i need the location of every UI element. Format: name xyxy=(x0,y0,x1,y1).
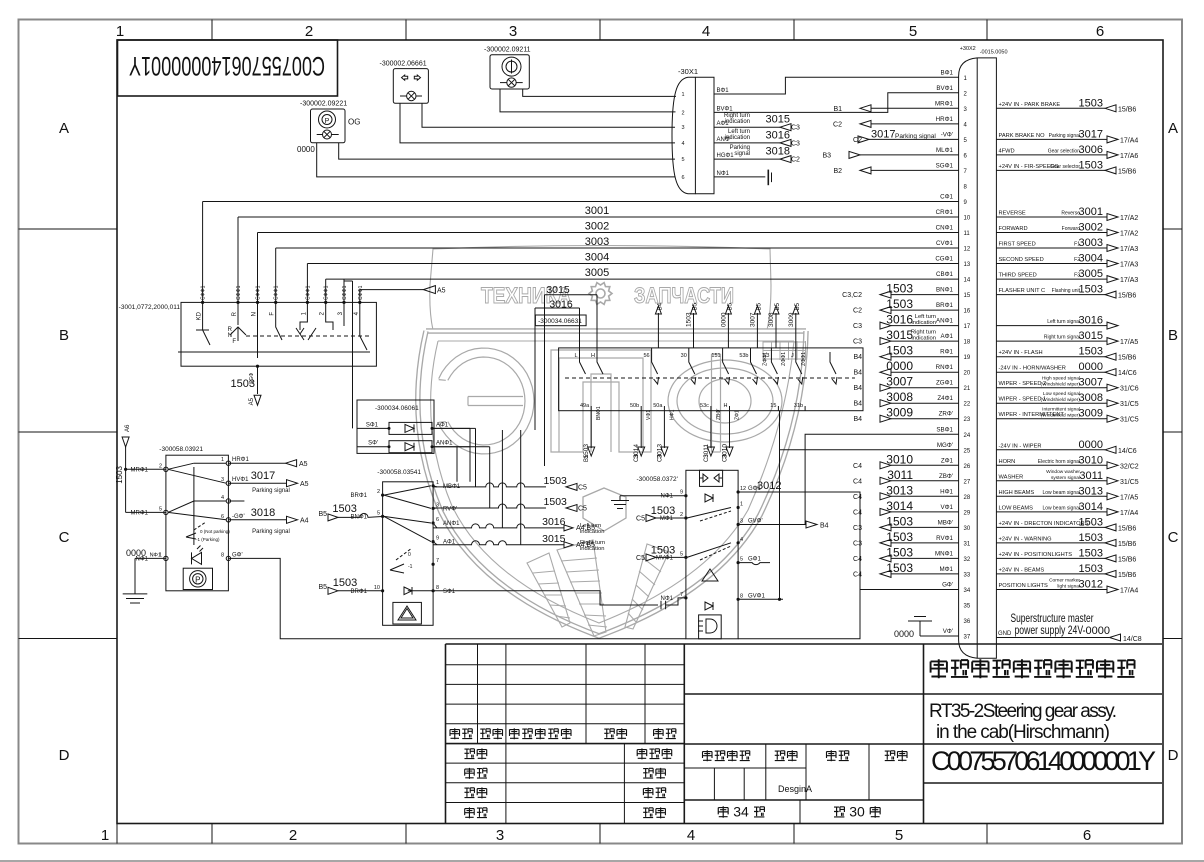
svg-text:L: L xyxy=(574,353,577,359)
svg-text:signal: signal xyxy=(734,151,750,157)
svg-text:1503: 1503 xyxy=(886,514,913,528)
svg-text:C5: C5 xyxy=(636,555,645,562)
svg-text:BNΦ1: BNΦ1 xyxy=(936,287,954,294)
svg-text:BVΦ1: BVΦ1 xyxy=(936,85,953,92)
svg-text:CΦΦ1: CΦΦ1 xyxy=(342,285,348,300)
svg-text:3017: 3017 xyxy=(871,128,895,140)
svg-text:SGΦ1: SGΦ1 xyxy=(936,162,954,169)
svg-text:4: 4 xyxy=(687,827,695,844)
svg-text:1503: 1503 xyxy=(231,378,255,390)
svg-text:17/A3: 17/A3 xyxy=(1120,246,1138,253)
svg-text:ZBΦ': ZBΦ' xyxy=(939,473,953,480)
svg-text:5: 5 xyxy=(377,510,380,516)
svg-text:Parking signal: Parking signal xyxy=(895,133,936,140)
svg-text:3007: 3007 xyxy=(886,375,913,389)
svg-text:B5: B5 xyxy=(318,584,327,591)
svg-text:C3,C2: C3,C2 xyxy=(842,292,862,299)
svg-text:3013: 3013 xyxy=(886,483,913,497)
svg-text:CΦΦ1: CΦΦ1 xyxy=(358,285,364,300)
svg-text:3001: 3001 xyxy=(1079,206,1103,218)
svg-text:34: 34 xyxy=(964,588,971,594)
svg-text:2: 2 xyxy=(305,23,313,40)
svg-text:13: 13 xyxy=(964,262,971,268)
svg-text:31b: 31b xyxy=(794,403,803,409)
svg-text:ZΦΦ1: ZΦΦ1 xyxy=(762,352,768,366)
svg-text:15/B6: 15/B6 xyxy=(1118,572,1136,579)
svg-text:HVΦ1: HVΦ1 xyxy=(232,477,249,483)
svg-text:0: 0 xyxy=(408,552,411,558)
svg-text:RVΦ': RVΦ' xyxy=(443,506,457,512)
svg-text:6: 6 xyxy=(681,175,684,181)
svg-text:HGΦ1: HGΦ1 xyxy=(717,153,735,159)
svg-text:1: 1 xyxy=(116,23,124,40)
svg-text:KD: KD xyxy=(197,311,203,320)
svg-text:A5: A5 xyxy=(299,461,308,468)
svg-text:3005: 3005 xyxy=(1079,268,1103,280)
svg-text:F: F xyxy=(270,312,276,316)
svg-text:22: 22 xyxy=(964,402,971,408)
svg-text:B5: B5 xyxy=(756,302,762,310)
svg-text:MRΦ1: MRΦ1 xyxy=(131,510,149,516)
svg-text:BRΦ1: BRΦ1 xyxy=(936,302,954,309)
svg-text:34: 34 xyxy=(733,804,749,820)
svg-text:3002: 3002 xyxy=(585,221,609,233)
svg-text:2: 2 xyxy=(680,512,683,518)
svg-text:OG: OG xyxy=(348,118,360,127)
svg-text:in the cab(Hirschmann): in the cab(Hirschmann) xyxy=(936,722,1110,743)
svg-text:B4: B4 xyxy=(853,416,862,423)
svg-text:12: 12 xyxy=(740,486,746,492)
svg-text:33: 33 xyxy=(964,572,971,578)
svg-text:Gear selector: Gear selector xyxy=(1050,164,1080,170)
svg-text:CΦΦ1: CΦΦ1 xyxy=(256,285,262,300)
svg-text:A5: A5 xyxy=(300,481,309,488)
svg-text:8: 8 xyxy=(436,585,439,591)
svg-text:14/C6: 14/C6 xyxy=(1118,370,1137,377)
svg-text:FLASHER UNIT C: FLASHER UNIT C xyxy=(999,288,1046,294)
svg-text:AΦ1: AΦ1 xyxy=(436,422,449,428)
svg-text:C3: C3 xyxy=(853,323,862,330)
svg-text:BΦ1: BΦ1 xyxy=(940,69,953,76)
svg-text:3004: 3004 xyxy=(585,252,609,264)
svg-text:indication: indication xyxy=(912,320,937,326)
svg-text:151: 151 xyxy=(711,353,720,359)
svg-text:3011: 3011 xyxy=(703,444,710,458)
svg-text:-300002.09221: -300002.09221 xyxy=(300,101,347,108)
svg-text:D: D xyxy=(1168,747,1179,764)
svg-text:3018: 3018 xyxy=(251,507,275,519)
svg-text:1503: 1503 xyxy=(1079,532,1103,544)
svg-text:35: 35 xyxy=(964,604,971,610)
svg-text:ZΦ1: ZΦ1 xyxy=(735,410,741,420)
svg-text:HIGH BEAMS: HIGH BEAMS xyxy=(999,490,1035,496)
svg-text:16: 16 xyxy=(964,309,971,315)
svg-text:0000: 0000 xyxy=(297,145,315,154)
svg-text:14: 14 xyxy=(964,278,971,284)
svg-text:WIPER - SPEED 1: WIPER - SPEED 1 xyxy=(999,397,1047,403)
svg-text:BNΦ1: BNΦ1 xyxy=(596,406,602,420)
svg-text:C4: C4 xyxy=(853,494,862,501)
svg-text:MBΦ1: MBΦ1 xyxy=(443,484,461,490)
svg-text:-1 (Parking): -1 (Parking) xyxy=(196,537,220,542)
svg-text:B5: B5 xyxy=(775,302,781,310)
svg-text:A6: A6 xyxy=(125,424,131,432)
svg-text:32/C2: 32/C2 xyxy=(1120,463,1139,470)
svg-text:4: 4 xyxy=(221,495,224,501)
svg-text:3017: 3017 xyxy=(1079,128,1103,140)
svg-text:17/A6: 17/A6 xyxy=(1120,153,1138,160)
svg-text:Flashing unit: Flashing unit xyxy=(1052,288,1081,294)
svg-text:50a: 50a xyxy=(653,403,663,409)
svg-text:Corner marker: Corner marker xyxy=(1049,578,1080,584)
svg-text:CΦ1: CΦ1 xyxy=(940,194,953,201)
svg-text:32: 32 xyxy=(964,557,971,563)
svg-text:31/C5: 31/C5 xyxy=(1120,479,1139,486)
svg-text:14/C6: 14/C6 xyxy=(1118,448,1137,455)
svg-text:system signal: system signal xyxy=(1051,475,1080,481)
svg-text:Right turn signal: Right turn signal xyxy=(1044,335,1080,341)
svg-text:Low speed signal: Low speed signal xyxy=(1043,391,1080,397)
svg-text:WIPER - SPEED 2: WIPER - SPEED 2 xyxy=(999,381,1047,387)
svg-text:BRΦ1: BRΦ1 xyxy=(351,589,368,595)
svg-text:2: 2 xyxy=(289,827,297,844)
svg-text:1503: 1503 xyxy=(332,503,356,515)
svg-text:-300002.06661: -300002.06661 xyxy=(380,61,427,68)
svg-text:30: 30 xyxy=(964,526,971,532)
svg-text:PARK BRAKE NO: PARK BRAKE NO xyxy=(999,133,1046,139)
svg-text:1503: 1503 xyxy=(686,312,693,327)
svg-text:17/A5: 17/A5 xyxy=(1120,339,1138,346)
svg-text:3015: 3015 xyxy=(766,114,790,126)
svg-text:17/A4: 17/A4 xyxy=(1120,588,1138,595)
svg-text:1503: 1503 xyxy=(651,544,675,556)
svg-text:6: 6 xyxy=(1096,23,1104,40)
svg-text:HRΦ1: HRΦ1 xyxy=(232,457,249,463)
svg-text:ZRΦ': ZRΦ' xyxy=(939,411,953,418)
svg-text:CΦΦ1: CΦΦ1 xyxy=(324,285,330,300)
svg-text:1503: 1503 xyxy=(886,545,913,559)
svg-text:H: H xyxy=(724,403,728,409)
svg-text:31: 31 xyxy=(964,541,971,547)
svg-text:1503: 1503 xyxy=(886,530,913,544)
svg-text:-1: -1 xyxy=(408,564,413,570)
svg-text:4: 4 xyxy=(702,23,710,40)
svg-text:VΦ': VΦ' xyxy=(943,628,953,635)
svg-text:AΦ1: AΦ1 xyxy=(443,540,456,546)
svg-text:Low beam signal: Low beam signal xyxy=(1042,490,1080,496)
svg-text:ANΦ1: ANΦ1 xyxy=(436,441,453,447)
svg-text:VΦ1: VΦ1 xyxy=(646,410,652,420)
svg-text:24: 24 xyxy=(964,433,971,439)
svg-text:3009: 3009 xyxy=(1079,408,1103,420)
svg-text:C4: C4 xyxy=(853,478,862,485)
svg-text:1: 1 xyxy=(740,502,743,508)
svg-text:17/A5: 17/A5 xyxy=(1120,494,1138,501)
svg-text:B2: B2 xyxy=(833,168,842,175)
svg-text:1503: 1503 xyxy=(886,561,913,575)
svg-text:F: F xyxy=(232,339,236,345)
svg-text:MRΦ1: MRΦ1 xyxy=(131,467,149,473)
svg-text:N: N xyxy=(252,312,258,316)
svg-text:17/A2: 17/A2 xyxy=(1120,215,1138,222)
svg-text:3012: 3012 xyxy=(757,480,781,492)
svg-text:12: 12 xyxy=(964,247,971,253)
svg-text:C5: C5 xyxy=(636,516,645,523)
svg-text:J: J xyxy=(791,353,794,359)
svg-text:indication: indication xyxy=(580,546,605,552)
svg-text:B4: B4 xyxy=(853,370,862,377)
svg-text:3015: 3015 xyxy=(542,533,566,545)
svg-text:1: 1 xyxy=(101,827,109,844)
svg-text:0000: 0000 xyxy=(1086,625,1110,637)
svg-text:ANΦ1: ANΦ1 xyxy=(936,318,954,325)
svg-text:CBΦ1: CBΦ1 xyxy=(936,271,954,278)
svg-text:-300034.06061: -300034.06061 xyxy=(375,405,419,412)
svg-text:WASHER: WASHER xyxy=(999,474,1024,480)
svg-text:A5: A5 xyxy=(437,288,446,295)
svg-text:8: 8 xyxy=(740,593,743,599)
svg-text:3005: 3005 xyxy=(585,267,609,279)
svg-text:-0015.0050: -0015.0050 xyxy=(980,50,1008,56)
svg-text:POSITION LIGHTS: POSITION LIGHTS xyxy=(999,583,1049,589)
svg-text:-30X1: -30X1 xyxy=(678,67,698,76)
svg-text:3003: 3003 xyxy=(1079,237,1103,249)
svg-text:3014: 3014 xyxy=(886,499,913,513)
svg-text:3: 3 xyxy=(496,827,504,844)
svg-text:-300058.03921: -300058.03921 xyxy=(159,446,203,453)
svg-text:C3: C3 xyxy=(853,525,862,532)
svg-text:Parking signal: Parking signal xyxy=(252,488,290,494)
svg-text:15/B6: 15/B6 xyxy=(1118,541,1136,548)
svg-text:5: 5 xyxy=(895,827,903,844)
svg-text:11: 11 xyxy=(964,231,971,237)
svg-text:SΦ1: SΦ1 xyxy=(443,589,456,595)
svg-text:31/C5: 31/C5 xyxy=(1120,401,1139,408)
svg-text:3016: 3016 xyxy=(549,299,573,311)
svg-text:25: 25 xyxy=(964,448,971,454)
svg-text:15/B6: 15/B6 xyxy=(1118,168,1136,175)
svg-text:B3: B3 xyxy=(822,152,831,159)
svg-text:53b: 53b xyxy=(739,353,748,359)
svg-text:HΦ1: HΦ1 xyxy=(669,409,675,420)
svg-text:9: 9 xyxy=(680,490,683,496)
svg-text:1503: 1503 xyxy=(1079,563,1103,575)
svg-text:3002: 3002 xyxy=(1079,222,1103,234)
svg-text:3015: 3015 xyxy=(886,328,913,342)
svg-text:3016: 3016 xyxy=(886,313,913,327)
svg-text:ANΦ1: ANΦ1 xyxy=(443,521,460,527)
svg-text:SBΦ1: SBΦ1 xyxy=(936,426,953,433)
svg-text:REVERSE: REVERSE xyxy=(999,211,1026,217)
svg-text:B4: B4 xyxy=(657,302,663,310)
svg-text:17/A2: 17/A2 xyxy=(1120,231,1138,238)
svg-text:Electric horn signal: Electric horn signal xyxy=(1038,459,1080,465)
svg-text:23: 23 xyxy=(964,417,971,423)
svg-text:CVΦ1: CVΦ1 xyxy=(936,240,954,247)
svg-text:C4: C4 xyxy=(853,509,862,516)
svg-text:BVΦ1: BVΦ1 xyxy=(717,106,734,112)
svg-text:power supply 24V-: power supply 24V- xyxy=(1015,623,1086,637)
svg-text:NΦ1: NΦ1 xyxy=(661,494,674,500)
svg-text:C4: C4 xyxy=(853,463,862,470)
svg-text:Left turn signal: Left turn signal xyxy=(1047,319,1080,325)
svg-text:31/C6: 31/C6 xyxy=(1120,386,1139,393)
svg-text:15/B6: 15/B6 xyxy=(1118,106,1136,113)
svg-text:20: 20 xyxy=(964,371,971,377)
svg-text:-GΦ': -GΦ' xyxy=(232,514,245,520)
svg-text:High speed signal: High speed signal xyxy=(1042,376,1080,382)
svg-text:C2: C2 xyxy=(833,121,842,128)
svg-text:15/B6: 15/B6 xyxy=(1118,293,1136,300)
svg-text:A: A xyxy=(1168,120,1178,137)
svg-text:Z4Φ1: Z4Φ1 xyxy=(937,395,953,402)
svg-text:1503: 1503 xyxy=(1079,346,1103,358)
svg-text:-VΦ': -VΦ' xyxy=(941,131,953,138)
svg-text:3: 3 xyxy=(681,125,684,131)
svg-text:B4: B4 xyxy=(820,523,829,530)
svg-text:-300058.03541: -300058.03541 xyxy=(377,469,421,476)
svg-text:indication: indication xyxy=(912,336,937,342)
svg-text:C5: C5 xyxy=(578,506,587,513)
svg-text:indication: indication xyxy=(725,135,750,141)
svg-text:CRΦ1: CRΦ1 xyxy=(936,209,954,216)
svg-text:HΦ1: HΦ1 xyxy=(940,488,953,495)
svg-text:1503: 1503 xyxy=(115,465,124,483)
svg-text:A5: A5 xyxy=(249,397,255,405)
svg-text:P: P xyxy=(195,575,200,584)
svg-text:ZGΦ1: ZGΦ1 xyxy=(936,380,954,387)
svg-text:-3001,0772,2000,011: -3001,0772,2000,011 xyxy=(119,304,181,311)
svg-text:indication: indication xyxy=(580,529,605,535)
svg-text:B5: B5 xyxy=(727,302,733,310)
svg-text:C3: C3 xyxy=(791,125,800,132)
svg-text:2: 2 xyxy=(377,489,380,495)
svg-text:5: 5 xyxy=(159,506,162,512)
svg-text:56: 56 xyxy=(643,353,649,359)
svg-text:C: C xyxy=(1168,529,1179,546)
svg-text:C00755706140000001Y: C00755706140000001Y xyxy=(129,51,325,81)
svg-text:7: 7 xyxy=(436,558,439,564)
svg-text:1503: 1503 xyxy=(544,496,568,508)
svg-text:GΦ': GΦ' xyxy=(942,582,953,589)
svg-text:8: 8 xyxy=(221,552,224,558)
svg-text:3004: 3004 xyxy=(1079,253,1103,265)
svg-text:36: 36 xyxy=(964,619,971,625)
svg-text:ZΦΦ1: ZΦΦ1 xyxy=(801,352,807,366)
svg-text:GND: GND xyxy=(998,631,1012,637)
svg-text:3014: 3014 xyxy=(1079,501,1103,513)
svg-text:4FWD: 4FWD xyxy=(999,148,1015,154)
svg-text:C2: C2 xyxy=(853,308,862,315)
svg-text:+30X2: +30X2 xyxy=(960,46,976,52)
svg-text:light signal: light signal xyxy=(1057,584,1080,590)
svg-text:15/B6: 15/B6 xyxy=(1118,525,1136,532)
svg-text:3010: 3010 xyxy=(722,444,729,459)
svg-text:LOW BEAMS: LOW BEAMS xyxy=(999,505,1034,511)
svg-text:1503: 1503 xyxy=(1079,547,1103,559)
svg-text:15/B6: 15/B6 xyxy=(1118,355,1136,362)
svg-text:FIRST SPEED: FIRST SPEED xyxy=(999,242,1036,248)
svg-text:CΦΦ1: CΦΦ1 xyxy=(236,285,242,300)
svg-text:FORWARD: FORWARD xyxy=(999,226,1028,232)
svg-text:0000: 0000 xyxy=(126,548,146,558)
svg-text:3009: 3009 xyxy=(886,406,913,420)
svg-text:21: 21 xyxy=(964,386,971,392)
svg-text:0000: 0000 xyxy=(1079,439,1103,451)
svg-text:Parking signal: Parking signal xyxy=(1049,133,1080,139)
svg-text:B4: B4 xyxy=(853,385,862,392)
svg-text:17/A3: 17/A3 xyxy=(1120,277,1138,284)
svg-text:3018: 3018 xyxy=(766,146,790,158)
svg-text:ZΦΦ1: ZΦΦ1 xyxy=(781,352,787,366)
svg-text:1503: 1503 xyxy=(1079,159,1103,171)
svg-text:RT35-2Steering gear assy.: RT35-2Steering gear assy. xyxy=(929,701,1117,722)
svg-text:C: C xyxy=(59,529,70,546)
svg-text:3016: 3016 xyxy=(1079,315,1103,327)
svg-text:1503: 1503 xyxy=(583,444,590,459)
svg-text:BRΦ1: BRΦ1 xyxy=(351,493,368,499)
svg-text:(Windshield wiper): (Windshield wiper) xyxy=(1041,413,1081,419)
svg-text:7: 7 xyxy=(680,592,683,598)
svg-text:3009: 3009 xyxy=(788,312,795,327)
svg-text:MRΦ1: MRΦ1 xyxy=(935,100,954,107)
svg-text:3001: 3001 xyxy=(585,205,609,217)
svg-text:30: 30 xyxy=(849,804,865,820)
svg-text:Intermittent signal: Intermittent signal xyxy=(1042,407,1080,413)
svg-text:RNΦ1: RNΦ1 xyxy=(936,364,954,371)
svg-text:H: H xyxy=(591,353,595,359)
svg-text:0000: 0000 xyxy=(886,359,913,373)
svg-text:NΦ1: NΦ1 xyxy=(661,596,674,602)
svg-text:17/A4: 17/A4 xyxy=(1120,510,1138,517)
svg-text:0000: 0000 xyxy=(1079,361,1103,373)
svg-text:C3: C3 xyxy=(853,540,862,547)
svg-text:Parking signal: Parking signal xyxy=(252,529,290,535)
svg-text:C3: C3 xyxy=(791,140,800,147)
svg-text:37: 37 xyxy=(964,635,971,641)
svg-text:3008: 3008 xyxy=(886,390,913,404)
svg-text:B4: B4 xyxy=(853,354,862,361)
svg-text:3015: 3015 xyxy=(1079,330,1103,342)
svg-text:B: B xyxy=(1168,327,1178,344)
svg-text:3016: 3016 xyxy=(542,516,566,528)
svg-text:B5: B5 xyxy=(795,302,801,310)
svg-text:15: 15 xyxy=(964,293,971,299)
svg-text:ЗАПЧАСТИ: ЗАПЧАСТИ xyxy=(634,283,734,308)
svg-text:Window washer: Window washer xyxy=(1046,469,1080,475)
svg-text:+24V IN - PARK BRAKE: +24V IN - PARK BRAKE xyxy=(999,102,1061,108)
svg-text:GVΦ': GVΦ' xyxy=(748,519,763,525)
svg-text:17/A3: 17/A3 xyxy=(1120,262,1138,269)
svg-text:1503: 1503 xyxy=(1079,284,1103,296)
svg-text:B5: B5 xyxy=(318,511,327,518)
svg-text:P: P xyxy=(325,118,330,125)
svg-text:5: 5 xyxy=(909,23,917,40)
svg-text:D: D xyxy=(59,747,70,764)
svg-text:A4: A4 xyxy=(300,518,309,525)
svg-text:MNΦ1: MNΦ1 xyxy=(935,550,954,557)
svg-text:+24V IN - WARNING: +24V IN - WARNING xyxy=(999,536,1052,542)
svg-text:1503: 1503 xyxy=(544,475,568,487)
svg-text:30: 30 xyxy=(681,353,687,359)
svg-text:+24V IN - DRECTON INDICATORS: +24V IN - DRECTON INDICATORS xyxy=(999,521,1089,527)
svg-text:1503: 1503 xyxy=(1079,97,1103,109)
svg-text:RVΦ1: RVΦ1 xyxy=(936,535,953,542)
svg-text:18: 18 xyxy=(964,340,971,346)
svg-text:15/B6: 15/B6 xyxy=(1118,556,1136,563)
svg-text:-300002.09211: -300002.09211 xyxy=(484,47,531,54)
svg-text:2: 2 xyxy=(159,463,162,469)
